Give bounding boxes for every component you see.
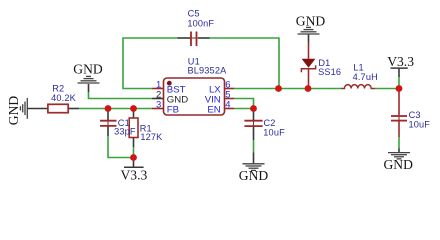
svg-text:100nF: 100nF	[187, 18, 214, 28]
svg-text:GND: GND	[239, 168, 269, 183]
svg-text:33pF: 33pF	[114, 127, 136, 137]
svg-text:V3.3: V3.3	[387, 54, 414, 69]
svg-text:10uF: 10uF	[409, 119, 431, 129]
svg-text:127K: 127K	[140, 132, 163, 142]
svg-text:SS16: SS16	[318, 67, 341, 77]
svg-text:4: 4	[225, 99, 230, 110]
svg-text:BL9352A: BL9352A	[188, 65, 228, 75]
svg-text:40.2K: 40.2K	[51, 93, 76, 103]
svg-text:GND: GND	[6, 96, 21, 126]
svg-text:EN: EN	[207, 105, 220, 116]
svg-text:4.7uH: 4.7uH	[353, 72, 378, 82]
svg-text:V3.3: V3.3	[120, 168, 147, 183]
svg-text:FB: FB	[167, 105, 179, 116]
svg-text:C5: C5	[188, 9, 200, 19]
svg-text:GND: GND	[73, 61, 103, 76]
svg-text:L1: L1	[353, 63, 364, 73]
svg-text:GND: GND	[383, 157, 413, 172]
svg-text:C3: C3	[409, 110, 421, 120]
svg-text:GND: GND	[296, 14, 326, 29]
svg-text:3: 3	[156, 99, 161, 110]
svg-text:10uF: 10uF	[263, 128, 285, 138]
